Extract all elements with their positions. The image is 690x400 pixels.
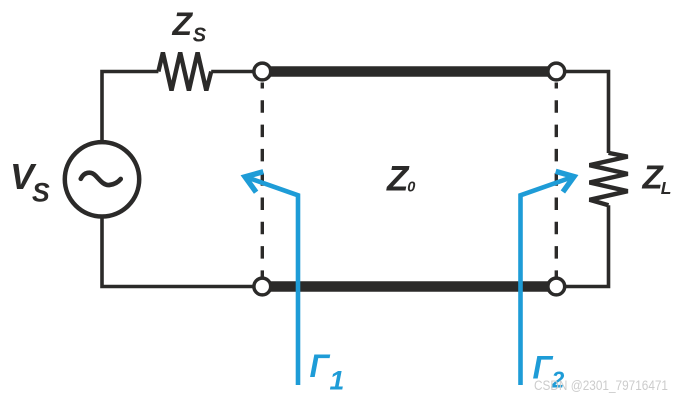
transmission line bottom conductor — [268, 281, 551, 292]
wire: load to bottom-right node — [565, 205, 609, 286]
svg-text:CSDN @2301_79716471: CSDN @2301_79716471 — [534, 378, 668, 393]
svg-text:S: S — [32, 178, 50, 208]
arrow Gamma2 shaft — [521, 177, 573, 385]
node: top-left terminal — [254, 63, 271, 80]
resistor Zs — [158, 53, 211, 91]
svg-text:S: S — [193, 24, 207, 46]
dashed reference plane at load — [555, 83, 558, 278]
svg-text:L: L — [661, 178, 672, 198]
wire: bottom-left node to source — [102, 217, 253, 287]
source sine symbol — [81, 173, 121, 185]
node: top-right terminal — [548, 63, 565, 80]
arrow Gamma2 head — [556, 171, 574, 192]
resistor ZL — [590, 153, 628, 205]
svg-text:Γ: Γ — [310, 348, 331, 384]
wire: top-right node to load — [565, 72, 609, 154]
node: bottom-right terminal — [548, 278, 565, 295]
dashed reference plane at input — [261, 83, 264, 278]
wire: Zs to input node — [211, 70, 253, 74]
svg-text:0: 0 — [407, 179, 415, 195]
transmission line top conductor — [268, 66, 551, 77]
source Vs circle — [65, 142, 139, 216]
wire: source top lead to Zs — [102, 72, 158, 142]
svg-text:Z: Z — [172, 6, 194, 42]
arrow Gamma1 head — [245, 172, 263, 193]
svg-text:1: 1 — [330, 366, 345, 396]
node: bottom-left terminal — [254, 278, 271, 295]
arrow Gamma1 shaft — [247, 177, 299, 385]
